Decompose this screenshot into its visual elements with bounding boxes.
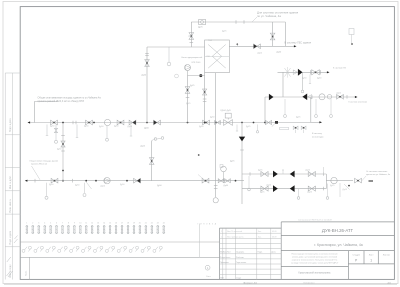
heating branch riser xyxy=(264,97,266,123)
drain stub D1 xyxy=(46,125,48,136)
hx inlet header xyxy=(147,46,205,48)
title block description xyxy=(291,253,339,264)
pump P1 drop xyxy=(187,71,189,76)
outlet dash xyxy=(369,180,374,182)
bypass riser supply-return xyxy=(62,123,64,181)
legend band left cell divider xyxy=(29,257,31,279)
svg-text:03.09: 03.09 xyxy=(272,236,277,238)
svg-text:Подп. и дата: Подп. и дата xyxy=(10,230,12,244)
svg-text:энергии и теплоносителя. Узел: энергии и теплоносителя. Узел учета тепл… xyxy=(292,258,338,261)
riser junction xyxy=(146,122,148,124)
svg-text:Ду25: Ду25 xyxy=(267,184,271,186)
valve V6b xyxy=(215,121,221,125)
mud filter M1 xyxy=(104,119,110,125)
butterfly valve BV1 xyxy=(285,68,291,77)
svg-text:Ду25: Ду25 xyxy=(222,31,226,33)
valve V3 xyxy=(117,120,124,125)
pump P3 xyxy=(213,198,218,203)
svg-text:В систему ГВС здания: В систему ГВС здания xyxy=(285,40,312,44)
svg-text:23: 23 xyxy=(157,223,159,225)
stub below collector 2 xyxy=(339,183,341,197)
svg-text:Р: Р xyxy=(355,259,357,263)
svg-text:Кач.: Кач. xyxy=(258,236,262,238)
row1 check CK4 xyxy=(273,171,278,178)
check valve CK2 filled xyxy=(269,94,274,101)
svg-text:Ду15: Ду15 xyxy=(343,189,347,191)
valve V17 vertical xyxy=(149,158,154,165)
check valve CK1 filled xyxy=(298,69,303,76)
makeup arrow down xyxy=(239,137,245,142)
right header riser xyxy=(325,174,327,189)
water meter W1 xyxy=(319,94,325,100)
valve V13 xyxy=(312,70,320,75)
svg-text:З: З xyxy=(212,224,213,226)
svg-text:Рыбалко: Рыбалко xyxy=(236,257,244,259)
svg-text:Изм. прибора учета: Изм. прибора учета xyxy=(227,236,243,238)
svg-text:12: 12 xyxy=(91,223,93,225)
svg-text:Насос циркуляционный: Насос циркуляционный xyxy=(182,56,203,59)
svg-text:вентиляции: вентиляции xyxy=(312,136,324,138)
row2 valve V23 xyxy=(261,186,268,191)
svg-text:20: 20 xyxy=(139,223,141,225)
dhw circ arrow xyxy=(327,71,330,73)
water meter W2 xyxy=(327,95,331,99)
svg-text:ДУК-ВН.26-АТГ: ДУК-ВН.26-АТГ xyxy=(322,228,354,233)
title block stage cols xyxy=(352,254,390,256)
makeup branch junction xyxy=(241,122,243,124)
svg-text:Инв.№ дубл.: Инв.№ дубл. xyxy=(9,175,12,189)
heating outlet pipe xyxy=(265,96,356,98)
drain stub D5 xyxy=(130,125,132,136)
pump aux circle xyxy=(175,74,179,78)
margin signature scribbles xyxy=(7,236,18,278)
stub under heating pipe 3 xyxy=(330,99,332,115)
row1 flange right xyxy=(322,172,324,176)
mixing pump MP xyxy=(221,166,227,172)
heat exchanger body xyxy=(205,40,230,73)
drain stub D4 xyxy=(106,126,108,139)
row2 valve V24 xyxy=(308,186,315,191)
svg-text:Ду50: Ду50 xyxy=(114,126,118,128)
left riser of top loop xyxy=(190,22,192,47)
pump to hx pipe xyxy=(188,75,205,77)
svg-text:Ду25: Ду25 xyxy=(189,36,193,38)
title block left grid xyxy=(220,227,282,229)
expansion tank xyxy=(349,29,354,35)
svg-text:Подп.: Подп. xyxy=(258,252,263,254)
trap legend row xyxy=(22,246,162,252)
hx riser flanges xyxy=(145,53,149,55)
valve V9 vertical xyxy=(270,33,275,40)
valve V6 xyxy=(203,120,210,125)
svg-text:18: 18 xyxy=(127,223,129,225)
bypass riser xyxy=(151,141,153,181)
junction dot hx top xyxy=(237,43,239,45)
svg-text:Формат А3: Формат А3 xyxy=(243,281,257,285)
junction dot return xyxy=(126,180,128,182)
dhw circulation pipe xyxy=(278,71,328,73)
stub under heating pipe 1 xyxy=(284,99,286,115)
svg-text:Взам. инв.№: Взам. инв.№ xyxy=(9,198,12,212)
svg-text:Ду25: Ду25 xyxy=(246,126,250,128)
svg-text:Ду50: Ду50 xyxy=(99,126,103,128)
makeup drop xyxy=(241,123,243,205)
valve V2 xyxy=(86,120,93,125)
right header stub up xyxy=(322,167,324,174)
valve V18 leader xyxy=(198,175,205,181)
legend band lower line xyxy=(20,256,219,258)
svg-text:3: 3 xyxy=(38,223,39,225)
title block upper row marks xyxy=(221,230,277,238)
hx riser left xyxy=(146,47,148,123)
svg-text:Струк: Струк xyxy=(236,278,241,280)
bypass top circles xyxy=(154,138,157,141)
stub under main 237 xyxy=(236,125,238,131)
svg-text:Ду25: Ду25 xyxy=(258,170,262,172)
check valve CK3 filled xyxy=(302,94,307,101)
open check partner xyxy=(293,70,297,75)
svg-text:Ду50: Ду50 xyxy=(49,184,53,186)
svg-text:Копировал: Копировал xyxy=(304,283,316,285)
valve V12 vertical xyxy=(145,60,150,67)
control valve CV1 xyxy=(224,120,233,126)
valve V7 xyxy=(266,120,272,124)
svg-text:4: 4 xyxy=(44,223,45,225)
svg-text:Ду25: Ду25 xyxy=(330,185,334,187)
svg-text:UPS 25-40: UPS 25-40 xyxy=(192,62,201,64)
riser legend row xyxy=(26,223,165,234)
svg-text:К системе ГВ: К системе ГВ xyxy=(333,67,346,69)
flange F2 xyxy=(235,20,237,24)
dhw outlet arrow xyxy=(294,45,297,47)
dhw circ drop left xyxy=(282,72,284,97)
drain diagonal xyxy=(86,182,91,189)
hx drop center xyxy=(215,73,217,123)
flange F6 xyxy=(346,95,348,99)
valve on hx left drop xyxy=(203,89,207,95)
row2 flange right xyxy=(322,187,324,191)
heat exchanger plates xyxy=(208,45,221,69)
svg-text:Ду50: Ду50 xyxy=(75,185,79,187)
return drain B xyxy=(84,183,86,193)
valve V8 vertical xyxy=(189,33,194,40)
below-line leader plate xyxy=(280,127,289,129)
svg-text:Изм.ТУ котельной: Изм.ТУ котельной xyxy=(227,230,242,233)
row1 valve V21 xyxy=(261,172,268,177)
hx drop junction xyxy=(215,122,217,124)
svg-text:Проверил: Проверил xyxy=(220,262,229,264)
valve V20 xyxy=(225,179,231,183)
vent outlet stub xyxy=(311,121,320,123)
svg-text:Ду50: Ду50 xyxy=(57,149,61,151)
svg-text:Г: Г xyxy=(198,224,199,226)
building area callout leader xyxy=(35,102,59,123)
vent outlet arrow xyxy=(319,121,322,123)
pump drop to main xyxy=(187,76,189,123)
flange F5 xyxy=(311,95,313,99)
svg-text:19: 19 xyxy=(133,223,135,225)
bypass valve vertical xyxy=(61,141,65,147)
svg-text:Стадия: Стадия xyxy=(352,254,360,256)
svg-text:жилого дома с установкой прибо: жилого дома с установкой прибора учета т… xyxy=(292,255,337,258)
svg-text:Ду50: Ду50 xyxy=(302,78,306,80)
dhw circ drop right xyxy=(302,72,304,90)
svg-text:24: 24 xyxy=(163,223,165,225)
collector outlet pipe xyxy=(326,180,353,182)
svg-text:Терентьева: Терентьева xyxy=(236,262,247,264)
svg-text:Ду50: Ду50 xyxy=(144,128,150,130)
extra riser tags xyxy=(198,223,217,226)
junction dot xyxy=(253,122,255,124)
svg-text:7: 7 xyxy=(62,223,63,225)
row2 check CK6 xyxy=(273,185,278,192)
svg-text:Общая жилая площадь здания: Общая жилая площадь здания xyxy=(29,160,58,162)
valve V5 dark xyxy=(154,120,161,125)
svg-text:Ду50: Ду50 xyxy=(120,184,124,186)
scattered pipe labels xyxy=(49,31,347,194)
svg-text:11: 11 xyxy=(85,223,87,225)
legend band column divider xyxy=(199,224,201,258)
return pipe left xyxy=(26,180,244,182)
svg-text:Ду25: Ду25 xyxy=(190,85,194,87)
svg-text:2: 2 xyxy=(221,231,222,233)
left margin stamp xyxy=(5,73,20,280)
svg-text:От системы отопления: От системы отопления xyxy=(366,171,387,173)
return callout leader xyxy=(32,166,41,180)
pump P1 xyxy=(185,65,191,71)
svg-text:Ду40: Ду40 xyxy=(224,185,228,187)
main line vertical end xyxy=(310,97,312,123)
flange F4 xyxy=(186,97,190,99)
svg-text:21: 21 xyxy=(145,223,147,225)
svg-text:Листов: Листов xyxy=(383,254,391,256)
drain stub D3 xyxy=(76,125,78,138)
svg-text:принята 980,1 м2: принята 980,1 м2 xyxy=(31,164,48,166)
svg-text:Подп. и дата: Подп. и дата xyxy=(10,118,12,132)
hx top outlet pipe xyxy=(229,45,294,47)
svg-text:Кач.: Кач. xyxy=(258,231,262,233)
stub under heating pipe 2 xyxy=(315,99,317,115)
row1 mid stub xyxy=(282,171,284,175)
small arrow right cluster xyxy=(348,185,350,187)
svg-text:ТО-1: ТО-1 xyxy=(208,40,212,42)
valve V4 dark xyxy=(129,120,136,125)
svg-text:Разработал: Разработал xyxy=(220,257,230,259)
valve V16 dark xyxy=(134,178,141,183)
return inlet arrow xyxy=(25,180,28,182)
svg-text:Ду50: Ду50 xyxy=(128,126,132,128)
row1 check CK5 xyxy=(290,171,295,178)
pump P2 xyxy=(104,178,110,184)
heat exchanger mid line xyxy=(205,55,230,57)
outlet leader xyxy=(362,176,366,181)
svg-text:16: 16 xyxy=(115,223,117,225)
svg-text:на вводе тепловой сети дома. С: на вводе тепловой сети дома. Схема узла … xyxy=(291,261,339,264)
title block right section xyxy=(281,222,394,280)
svg-text:Ду25: Ду25 xyxy=(296,117,300,119)
row1 stub down xyxy=(248,176,250,188)
svg-text:по ул. Чайкина, 4а: по ул. Чайкина, 4а xyxy=(257,14,281,18)
small drain valve pair A xyxy=(293,126,298,129)
valve V11 vertical xyxy=(185,87,190,94)
makeup flange xyxy=(240,149,244,151)
pump drop junction xyxy=(187,122,189,124)
svg-text:Ду25: Ду25 xyxy=(260,191,264,193)
valve V25 xyxy=(355,178,362,183)
svg-text:Ду50: Ду50 xyxy=(258,52,262,54)
svg-text:Ду50: Ду50 xyxy=(337,93,341,95)
junction dot 94 xyxy=(93,122,95,124)
flange pair F1 xyxy=(72,121,74,125)
svg-text:Ду25: Ду25 xyxy=(306,170,310,172)
flange F8 xyxy=(72,179,74,183)
svg-text:Ду40: Ду40 xyxy=(317,78,321,80)
svg-text:1: 1 xyxy=(26,223,27,225)
supply inlet arrow xyxy=(28,121,31,123)
svg-text:Ду25: Ду25 xyxy=(186,103,190,105)
right riser of top loop xyxy=(284,22,286,46)
svg-text:Ду50: Ду50 xyxy=(199,126,203,128)
svg-text:1: 1 xyxy=(370,259,372,263)
svg-text:05.09: 05.09 xyxy=(272,231,277,233)
svg-text:1: 1 xyxy=(221,236,222,238)
svg-text:№ докум.: № докум. xyxy=(236,251,245,254)
open check partner 2 xyxy=(308,95,312,99)
middle riser xyxy=(272,22,274,46)
svg-text:2: 2 xyxy=(32,223,33,225)
diagonal drain right xyxy=(344,184,350,190)
svg-text:5: 5 xyxy=(50,223,51,225)
svg-text:К системе отопления: К системе отопления xyxy=(349,102,368,104)
valve V1 xyxy=(51,120,58,125)
hx left drop xyxy=(204,73,206,123)
sheet bottom shadow xyxy=(4,283,397,285)
valve V15 xyxy=(51,178,58,183)
svg-text:Красноярский жилкомсервис: Красноярский жилкомсервис xyxy=(298,272,331,275)
svg-text:г. Красноярск, ул. Чайкина, 4а: г. Красноярск, ул. Чайкина, 4а xyxy=(314,243,363,247)
svg-text:РД-НО Ду25: РД-НО Ду25 xyxy=(221,110,231,112)
return drain A xyxy=(46,183,48,196)
top meter pipe xyxy=(191,21,285,23)
stub under main 257 xyxy=(257,125,259,131)
svg-text:8: 8 xyxy=(68,223,69,225)
heating outlet arrow xyxy=(355,96,358,98)
valve V14 xyxy=(337,95,344,100)
drain stub D1b xyxy=(55,125,57,141)
meter box xyxy=(199,19,206,24)
strainer box xyxy=(225,113,231,118)
title block signature rows xyxy=(220,251,277,280)
svg-text:13: 13 xyxy=(97,223,99,225)
main supply pipe xyxy=(29,122,311,124)
svg-text:22: 22 xyxy=(151,223,153,225)
svg-text:Ду50: Ду50 xyxy=(101,185,105,187)
svg-text:Ду25: Ду25 xyxy=(308,191,312,193)
svg-text:6: 6 xyxy=(56,223,57,225)
flange F3 xyxy=(190,42,194,44)
svg-text:Реконструкция теплового узла и: Реконструкция теплового узла и системы о… xyxy=(291,253,337,255)
dhw stub S1 xyxy=(309,75,311,84)
svg-text:17: 17 xyxy=(121,223,123,225)
row2 mid stub xyxy=(298,189,300,197)
small drain valve pair B xyxy=(301,126,306,129)
row1 pipe xyxy=(242,173,326,175)
expansion tank mark xyxy=(351,43,353,45)
row2 check CK7 xyxy=(290,185,295,192)
dark valve on main line xyxy=(275,121,278,124)
riser junction dot 265 xyxy=(264,122,266,124)
svg-text:принята равной 1524,3 м2 по об: принята равной 1524,3 м2 по обмеру БТИ xyxy=(38,100,85,103)
stub below collector 1 xyxy=(327,184,329,197)
svg-text:здания по ул. Чайкина, 4а: здания по ул. Чайкина, 4а xyxy=(366,173,391,176)
svg-text:15: 15 xyxy=(109,223,111,225)
svg-text:Ду50: Ду50 xyxy=(50,126,54,128)
flange F9 xyxy=(214,185,218,187)
lower hx drop xyxy=(215,123,217,198)
svg-text:Ду50: Ду50 xyxy=(210,117,214,119)
svg-text:10: 10 xyxy=(79,223,81,225)
svg-text:Лист: Лист xyxy=(227,252,231,254)
svg-text:А3: А3 xyxy=(387,281,391,285)
row2 pipe xyxy=(242,188,326,190)
svg-text:Согласовано ГЖКУ №17 от 12.03.: Согласовано ГЖКУ №17 от 12.03.09 xyxy=(298,219,333,222)
junction dot right xyxy=(95,180,97,182)
valve V10 dark xyxy=(254,44,261,49)
svg-text:Ду25: Ду25 xyxy=(230,161,234,163)
header stub circle xyxy=(168,47,170,62)
valve V18 xyxy=(202,178,209,183)
junction dot 235 xyxy=(235,180,237,182)
valve V19 xyxy=(218,179,224,183)
svg-text:Ду50: Ду50 xyxy=(84,126,88,128)
legend band upper line xyxy=(20,241,219,243)
row1 valve V22 xyxy=(308,172,315,177)
drain junction xyxy=(85,180,87,182)
svg-text:В систему: В систему xyxy=(312,133,323,135)
svg-text:Лист: Лист xyxy=(369,254,374,256)
top callout leader xyxy=(252,17,257,22)
collector circle xyxy=(331,177,337,183)
svg-text:Согл.: Согл. xyxy=(206,276,211,278)
revision mark circle xyxy=(205,265,210,270)
svg-text:14: 14 xyxy=(103,223,105,225)
svg-text:Прим.: Прим. xyxy=(26,270,28,276)
svg-text:9: 9 xyxy=(74,223,75,225)
pump valve dark xyxy=(199,74,202,77)
row1 flange xyxy=(249,172,251,176)
svg-text:ГИП: ГИП xyxy=(220,278,224,280)
flange F7 xyxy=(34,179,36,183)
